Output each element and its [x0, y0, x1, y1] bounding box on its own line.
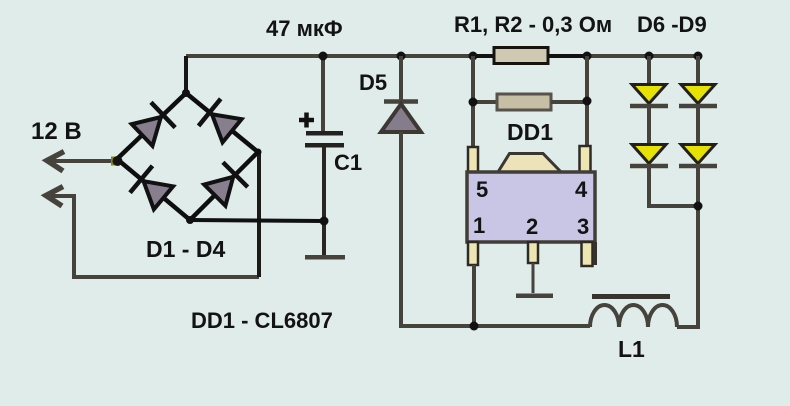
wire: stub from top rail down to bridge top node [184, 56, 188, 93]
diode D5 top lead [399, 56, 403, 101]
svg-text:R1, R2 - 0,3 Ом: R1, R2 - 0,3 Ом [454, 12, 612, 37]
inductor L1 coil [590, 305, 677, 327]
wire: bridge diamond arms [117, 93, 258, 220]
LED D8 [630, 145, 668, 167]
svg-text:DD1 - CL6807: DD1 - CL6807 [191, 308, 333, 333]
wire: negative wire from bridge bottom node to C1 bottom [190, 220, 324, 221]
wire: top positive rail [186, 54, 698, 58]
junction: C1 top on rail [319, 52, 328, 61]
junction: R2 right [583, 97, 592, 106]
junction: D5 top on rail [397, 52, 406, 61]
svg-text:47 мкФ: 47 мкФ [266, 16, 343, 41]
capacitor C1 top plate [306, 131, 343, 136]
LED D7 [679, 85, 717, 107]
ground bar under pin 2 [516, 294, 553, 299]
IC DD1 tab (trapezoid) [498, 154, 561, 173]
svg-text:D1 - D4: D1 - D4 [146, 236, 225, 262]
wire: pin 2 down to ground [532, 263, 535, 293]
wire: AC input 1 shaft [48, 159, 116, 163]
wire: short stub along right edge of pin 3 [593, 242, 597, 265]
svg-text:2: 2 [526, 214, 538, 239]
svg-text:12 В: 12 В [31, 118, 82, 145]
junction: R1/R2 left node on rail [469, 52, 478, 61]
IC DD1 pin 5 (top-left) [468, 147, 478, 172]
junction: LED strings bottom [694, 202, 703, 211]
diode D3 (bottom-left arm) [130, 166, 175, 211]
diode D1 (top-left arm) [130, 102, 175, 147]
svg-text:5: 5 [476, 177, 488, 202]
wire: AC input 2 route (arrow to bridge right node) [46, 196, 259, 277]
LED D6 [630, 85, 668, 107]
wire: left vertical from rail to pin 5 [471, 56, 475, 148]
node: bridge left AC node (yellow sliver + black blob) [111, 157, 115, 166]
inductor L1 core bar [592, 294, 670, 299]
junction: LED string 1 top on rail [645, 52, 654, 61]
capacitor C1 lead (top) [321, 56, 325, 131]
junction: C1 bottom on negative wire [320, 217, 329, 226]
resistor R2 lead left [473, 100, 497, 104]
junction: R2 left [469, 98, 478, 107]
wire: LED string 2 [677, 56, 698, 327]
wire: vertical from bridge right node down [257, 152, 261, 277]
resistor R1 lead left [473, 54, 494, 58]
svg-text:C1: C1 [334, 150, 362, 175]
svg-text:DD1: DD1 [507, 119, 553, 145]
junction: LED string 2 top corner [694, 52, 703, 61]
svg-text:D6 -D9: D6 -D9 [637, 12, 707, 37]
diode D4 (bottom-right arm) [202, 162, 247, 207]
capacitor C1 lead (bottom) [322, 147, 326, 255]
wire: D5 bottom lead down and along bottom to L1 [401, 132, 590, 326]
resistor R2 [497, 94, 551, 110]
ground bar below C1 [305, 255, 345, 260]
wire: right vertical from rail to pin 4 [585, 56, 589, 147]
node: bridge bottom node junction [186, 216, 194, 224]
svg-text:1: 1 [473, 213, 485, 238]
diode D5 (pointing up) [381, 102, 421, 133]
svg-text:L1: L1 [618, 336, 645, 362]
IC DD1 pin 3 (bottom-right) [582, 242, 593, 266]
IC DD1 body [467, 172, 595, 242]
wire: LED string 1 [649, 56, 698, 206]
wire: pin 1 down to bottom wire [472, 265, 476, 326]
svg-text:3: 3 [577, 214, 589, 239]
LED D9 [679, 145, 717, 167]
diode D2 (top-right arm) [199, 99, 244, 144]
IC DD1 pin 4 (top-right) [580, 146, 591, 172]
node: bridge right AC node [255, 149, 262, 156]
junction: R1/R2 right node on rail [583, 52, 592, 61]
IC DD1 pin 2 (bottom-center) [528, 242, 538, 263]
arrow: AC input terminal 2 [46, 187, 63, 207]
IC DD1 pin 1 (bottom-left) [468, 242, 478, 265]
node: bridge top node junction [182, 89, 190, 97]
svg-text:D5: D5 [359, 70, 387, 95]
resistor R2 lead right [551, 100, 587, 104]
resistor R1 [494, 48, 548, 64]
resistor R1 lead right [548, 54, 587, 58]
capacitor C1 bottom plate [305, 143, 344, 148]
plus sign of C1 [299, 113, 314, 128]
svg-text:4: 4 [575, 177, 588, 202]
junction: pin1 / bottom wire [470, 322, 479, 331]
arrow: AC input terminal 1 [47, 152, 64, 172]
